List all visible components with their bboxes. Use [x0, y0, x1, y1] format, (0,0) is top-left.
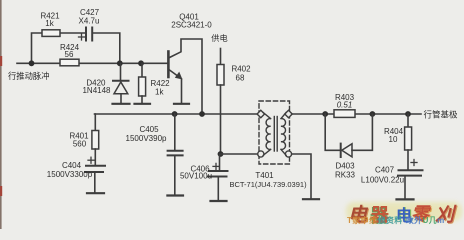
wire secondary top to right bus [292, 113, 421, 115]
node I R404 tap [405, 111, 411, 117]
wire bus corner down to R401 [94, 114, 96, 131]
svg-text:1500V390p: 1500V390p [126, 134, 167, 143]
ground stub under C405 [167, 194, 183, 196]
wire C407 down [404, 177, 406, 199]
capacitor C407 plates [399, 169, 423, 171]
svg-text:C407: C407 [375, 166, 395, 175]
svg-text:C404: C404 [62, 161, 82, 170]
ground stub under D420 [113, 103, 130, 105]
capacitor C407 plus sign [411, 160, 417, 166]
wire R404 drop [407, 114, 409, 127]
left page edge strip [0, 0, 2, 229]
svg-text:D403: D403 [335, 162, 355, 171]
wire R404 to C407 [407, 150, 409, 170]
svg-text:0.51: 0.51 [337, 101, 353, 110]
svg-text:68: 68 [236, 74, 245, 83]
svg-text:X4.7u: X4.7u [79, 17, 100, 26]
capacitor C406 plus sign [213, 163, 219, 169]
wire collector bus y114 [95, 113, 258, 115]
svg-text:1k: 1k [45, 19, 54, 28]
node C R422 junction [138, 60, 144, 66]
wire secondary bottom to ground [292, 154, 311, 198]
svg-text:10: 10 [389, 135, 398, 144]
transformer T401 dashed enclosure [259, 101, 290, 164]
wire R401 to C404 [94, 149, 96, 165]
transistor Q401 collector path [170, 39, 203, 114]
resistor R422 [139, 63, 146, 102]
capacitor C404 plates [86, 165, 105, 167]
ground stub under C404 [87, 192, 104, 194]
node F R402/C406/primary junction [218, 151, 224, 157]
node D C405 tap [172, 111, 178, 117]
transformer T401 secondary winding [281, 113, 286, 156]
diode D403 [341, 114, 373, 157]
capacitor C405 plates [168, 150, 183, 152]
wire C427 right down to node [92, 33, 119, 63]
svg-text:供电: 供电 [211, 33, 227, 43]
transformer T401 terminal top-right [285, 110, 292, 117]
wire R421 to C427 [60, 32, 86, 34]
resistor R404 [405, 127, 412, 150]
ground stub under C407 [397, 198, 414, 200]
svg-text:RK33: RK33 [335, 171, 356, 180]
transformer T401 terminal top-left [257, 110, 264, 117]
node G D403 left [322, 111, 328, 117]
diode D420 [113, 63, 129, 102]
svg-text:L100V0.22u: L100V0.22u [361, 176, 404, 185]
resistor R402 [217, 65, 224, 86]
svg-text:行管基极: 行管基极 [424, 110, 459, 120]
ground stub under C406 [211, 200, 227, 202]
capacitor C427 plates [85, 28, 87, 41]
capacitor C404 plus sign [88, 157, 94, 163]
svg-text:1k: 1k [155, 88, 164, 97]
wire R421 branch left vertical [32, 33, 43, 63]
transformer T401 terminal bottom-right [285, 151, 291, 157]
wire R402 down across bus to node [220, 85, 222, 154]
wire C405 down [174, 156, 176, 194]
wire node F down to C406 [219, 154, 221, 170]
node E collector tap [199, 111, 205, 117]
transformer T401 terminal bottom-left [258, 151, 264, 157]
wire C406 down [217, 178, 219, 200]
svg-text:2SC3421-0: 2SC3421-0 [171, 21, 212, 30]
schematic text labels [8, 8, 458, 189]
transformer T401 primary winding [263, 113, 270, 156]
svg-text:1N4148: 1N4148 [82, 86, 111, 95]
svg-text:1500V3300p: 1500V3300p [47, 170, 93, 179]
svg-text:50V100u: 50V100u [180, 172, 212, 181]
transformer T401 core [273, 117, 275, 152]
watermark logo big characters [348, 200, 367, 227]
wire C404 down [94, 173, 96, 192]
resistor R421 [42, 30, 60, 37]
ground stub T401 secondary [303, 198, 319, 200]
ground stub under Q401 emitter [174, 103, 189, 105]
node B C427/D420 junction [117, 60, 123, 66]
node H D403 right [370, 111, 376, 117]
wire input line y63 [17, 62, 168, 64]
watermark small url line [347, 215, 445, 226]
capacitor C427 plus sign [79, 34, 85, 40]
svg-text:R402: R402 [231, 65, 251, 74]
wire supply drop to R402 [220, 49, 222, 65]
resistor R403 [334, 110, 355, 118]
resistor R401 [92, 131, 99, 150]
ground stub under R422 [135, 103, 151, 105]
svg-text:行推动脉冲: 行推动脉冲 [8, 71, 50, 81]
transistor Q401 emitter with arrow [170, 70, 183, 103]
wire D403 bypass loop [325, 114, 339, 150]
svg-text:T401: T401 [255, 171, 274, 180]
transistor Q2SC3421 base bar [167, 52, 170, 78]
wire C405 drop [174, 114, 176, 150]
svg-text:BCT-71(JU4.739.0391): BCT-71(JU4.739.0391) [229, 180, 307, 189]
svg-text:C405: C405 [139, 125, 159, 134]
watermark logo background glow [346, 202, 462, 221]
node A input junction [29, 60, 35, 66]
capacitor C406 plates [209, 170, 228, 172]
wire node F to transformer bottom-left [221, 153, 258, 155]
resistor R424 [60, 59, 79, 66]
svg-text:56: 56 [65, 50, 74, 59]
svg-text:560: 560 [73, 140, 87, 149]
